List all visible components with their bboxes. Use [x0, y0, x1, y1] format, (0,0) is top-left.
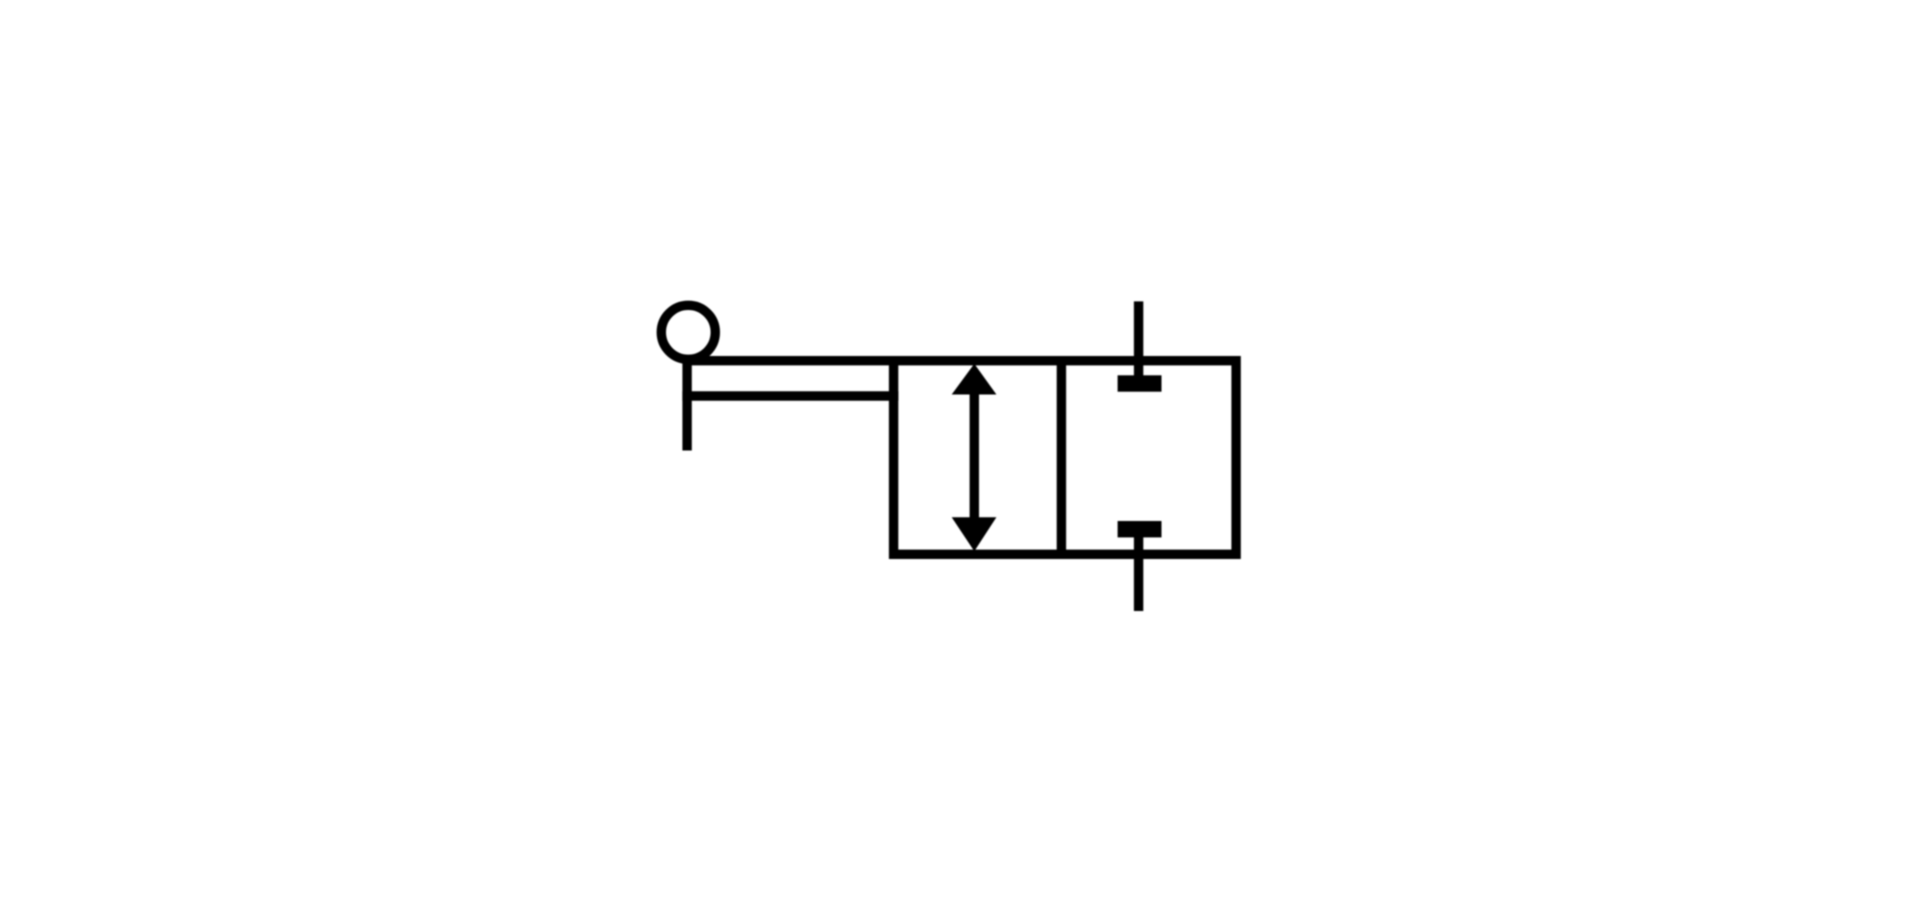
top port line (stub through body top into right cell) [1134, 301, 1143, 382]
cell divider (position separator) [1057, 361, 1066, 555]
flow arrow head down [952, 517, 997, 551]
lever knob (circle) [661, 305, 715, 359]
lever lower arm (from stem to valve body left edge) [682, 391, 898, 400]
lever pivot stem (vertical line below knob) [682, 357, 691, 451]
lever upper arm (top rail from knob to valve body, collinear with body top edge) [687, 356, 895, 365]
top port blocked seat (bar) [1118, 375, 1162, 391]
flow arrow shaft (double-headed, left cell) [970, 388, 979, 523]
valve body outline (two-position envelope) [894, 361, 1237, 555]
bottom port blocked seat (bar) [1118, 521, 1162, 537]
flow arrow head up [952, 364, 997, 395]
bottom port line (stub through body bottom) [1134, 532, 1143, 611]
